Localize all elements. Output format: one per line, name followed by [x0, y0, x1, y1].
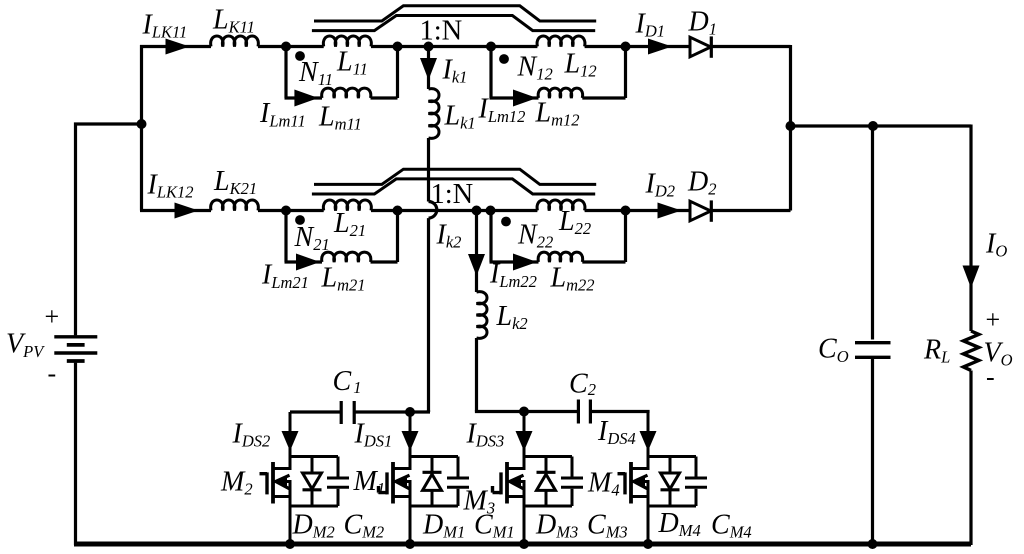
M2 cell top bar	[290, 455, 338, 470]
transistor M1 channel bar	[391, 462, 395, 504]
winding N22 left vertical	[489, 211, 492, 263]
transistor M1 gate lead	[379, 486, 388, 493]
transistor M4 gate lead	[618, 472, 626, 475]
wire C_O branch lower	[871, 359, 874, 545]
capacitor C_M3 plate bottom	[561, 486, 583, 489]
inductor L_m12	[538, 88, 583, 98]
wire row2 rail segment B	[258, 209, 324, 212]
capacitor C_M2 bottom lead	[337, 489, 340, 506]
wire row2 rail segment C	[371, 209, 537, 212]
transistor M3 body arrow	[510, 475, 524, 489]
wire row1 rail segment A	[140, 45, 211, 48]
arrow I_k1	[420, 58, 437, 80]
transistor M3 bottom stub	[507, 495, 524, 498]
arrow I_D2	[658, 203, 682, 219]
wire hop over row2 rail	[429, 202, 437, 219]
capacitor C_M2 plate bottom	[327, 486, 349, 489]
wire input left vertical	[140, 45, 143, 211]
inductor L_K11	[211, 36, 259, 47]
arrow I_DS3	[516, 431, 533, 451]
diode D_M1 triangle (up)	[423, 474, 442, 490]
wire M3 row horizontal right of C2	[590, 412, 648, 414]
capacitor C_M2 plate top	[327, 477, 349, 480]
diode D2 triangle	[690, 201, 711, 221]
transistor M2 gate lead	[260, 472, 268, 475]
node M4 source ground	[643, 539, 653, 549]
M4 cell bottom bar	[648, 505, 696, 508]
inductor L_k1 (vertical)	[429, 89, 440, 139]
node C_O top junction	[868, 121, 878, 131]
transformer T1 core bar lower	[312, 16, 595, 31]
wire Lm21 bottom right	[371, 260, 398, 263]
node C_O ground	[868, 539, 878, 549]
arrow I_DS4	[640, 431, 657, 451]
capacitor C_O plate top	[855, 341, 891, 344]
diode D_M2 triangle (down)	[303, 473, 322, 489]
capacitor C_M1 plate bottom	[447, 486, 469, 489]
transistor M2 bottom stub	[273, 495, 290, 498]
winding N21 right vertical	[396, 211, 399, 263]
transistor M3 top stub	[507, 467, 524, 470]
transistor M3 gate bar	[499, 472, 502, 494]
wire to source V_PV	[76, 124, 144, 335]
capacitor C_M4 plate top	[685, 477, 707, 480]
diode D_M4 cathode bar	[661, 488, 680, 491]
svg-text:1:N: 1:N	[431, 179, 474, 210]
inductor L_m22	[538, 252, 583, 262]
diode D_M3 cathode bar	[537, 471, 556, 474]
diode D_M2 anode lead	[311, 457, 314, 474]
node M1 drain junction	[405, 407, 415, 417]
wire T1 center tap down to Lk1	[427, 47, 430, 90]
wire row1 rail segment C	[371, 45, 537, 48]
capacitor C_M4 plate bottom	[685, 486, 707, 489]
diode D_M3 cathode lead	[545, 457, 548, 473]
arrow I_O	[963, 266, 980, 289]
polarity dot N12	[499, 54, 509, 64]
svg-text:-: -	[48, 359, 57, 388]
wire Lm12 bottom right	[582, 96, 625, 99]
wire M1 row horizontal right of C1	[354, 410, 430, 412]
capacitor C2 plate left	[577, 400, 580, 424]
transistor M4 body stub	[631, 480, 648, 483]
MOSFET M2 cell	[260, 412, 350, 545]
svg-text:+: +	[986, 305, 1001, 334]
transistor M3 drain lead	[523, 412, 526, 457]
battery V_PV plate short 2	[67, 359, 85, 363]
diode D_M2 cathode lead	[311, 490, 314, 506]
wire output right vertical	[789, 45, 792, 211]
arrow I_D1	[648, 39, 672, 55]
arrow I_Lm21	[296, 254, 320, 271]
wire Lm22 bottom right	[582, 260, 625, 263]
inductor L_k2 (vertical)	[477, 292, 488, 339]
battery V_PV plate short 1	[67, 343, 85, 347]
capacitor C_M4 bottom lead	[695, 489, 698, 506]
wire row2 rail segment E (D2 cathode to corner)	[711, 209, 791, 212]
winding N21 left vertical	[284, 211, 287, 263]
M3 cell bottom bar	[524, 505, 572, 508]
MOSFET M3 cell	[493, 412, 584, 546]
arrow I_LK12	[175, 203, 199, 219]
node row1 center tap	[424, 42, 434, 52]
transistor M4 body arrow	[634, 475, 648, 489]
transistor M3 gate lead	[493, 486, 502, 493]
wire Lk1 to hop	[427, 138, 430, 202]
transistor M2 body stub	[273, 480, 290, 483]
arrow I_Lm11	[294, 90, 318, 107]
diode D_M2 cathode bar	[303, 488, 322, 491]
transistor M3 channel bar	[505, 462, 509, 504]
capacitor C_M3 bottom lead	[571, 489, 574, 506]
wire T2 center tap down to Lk2	[475, 211, 478, 293]
transistor M1 body stub	[393, 480, 410, 483]
resistor R_L zigzag	[963, 331, 978, 370]
capacitor C_M1 bottom lead	[457, 489, 460, 506]
diode D2 cathode bar	[710, 200, 713, 221]
wire row1 rail segment D	[585, 45, 690, 48]
diode D_M4 anode lead	[669, 457, 672, 474]
M1 cell top bar	[410, 455, 458, 470]
wire R_L branch upper	[969, 125, 972, 332]
diode D_M1 cathode bar	[423, 471, 442, 474]
transistor M4 channel bar	[629, 462, 633, 504]
node row2 center tap	[472, 206, 482, 216]
diode D_M4 triangle (down)	[661, 473, 680, 489]
transformer T1 core bar upper	[314, 6, 596, 21]
wire R_L branch lower	[969, 371, 972, 546]
inductor L_11	[323, 36, 371, 47]
inductor L_21	[323, 200, 371, 211]
node M2 source ground	[285, 539, 295, 549]
inductor L_12	[537, 36, 585, 47]
diode D1 triangle	[690, 37, 711, 57]
transistor M2 gate bar	[265, 472, 268, 494]
winding N11 right vertical	[396, 47, 399, 99]
diode D_M3 triangle (up)	[537, 474, 556, 490]
diode D_M1 anode lead	[431, 490, 434, 506]
transistor M2 body arrow	[276, 475, 290, 489]
capacitor C_M3 plate top	[561, 477, 583, 480]
transistor M3 source lead	[523, 480, 526, 545]
svg-text:1:N: 1:N	[420, 16, 463, 47]
wire V_PV negative to ground rail	[74, 363, 77, 545]
node input junction	[137, 119, 147, 129]
transistor M2 drain lead	[289, 412, 292, 457]
MOSFET M4 cell	[618, 412, 708, 546]
arrow I_DS1	[402, 431, 419, 451]
capacitor C1 plate left	[340, 401, 343, 424]
capacitor C_M4 top lead	[695, 457, 698, 477]
transistor M4 bottom stub	[631, 495, 648, 498]
transistor M3 body stub	[507, 480, 524, 483]
transistor M4 source lead	[647, 480, 650, 545]
M3 cell top bar	[524, 455, 572, 470]
svg-text:-: -	[986, 363, 995, 392]
capacitor C2 plate right	[589, 400, 592, 424]
MOSFET M1 cell	[379, 412, 470, 545]
transistor M1 drain lead	[409, 412, 412, 457]
node row2 N22 left	[486, 206, 496, 216]
node M3 source ground	[519, 539, 529, 549]
transistor M1 body arrow	[396, 475, 410, 489]
M4 cell top bar	[648, 455, 696, 470]
wire Lk2 down to M3 row	[475, 338, 478, 412]
wire Lm21 bottom left	[285, 260, 323, 263]
arrow I_Lm22	[513, 254, 537, 271]
winding N11 left vertical	[284, 47, 287, 99]
wire output node rail	[789, 124, 971, 127]
node M3 drain junction	[519, 407, 529, 417]
battery V_PV plate long top	[54, 335, 97, 338]
node output junction	[786, 121, 796, 131]
M1 cell bottom bar	[410, 505, 458, 508]
M2 cell bottom bar	[290, 505, 338, 508]
inductor L_m11	[322, 88, 371, 98]
winding N22 right vertical	[624, 211, 627, 263]
wire M3 row horizontal left of C2	[477, 410, 579, 412]
node row2 N21 left	[281, 206, 291, 216]
arrow I_DS2	[282, 431, 299, 451]
capacitor C_M1 plate top	[447, 477, 469, 480]
transformer T2 core bar upper	[314, 169, 596, 184]
transistor M2 channel bar	[271, 462, 275, 504]
winding N12 right vertical	[624, 47, 627, 99]
arrow I_LK11	[166, 39, 190, 55]
transistor M1 bottom stub	[393, 495, 410, 498]
capacitor C1 plate right	[353, 401, 356, 424]
wire row1 rail segment E (D1 cathode to corner)	[711, 45, 791, 48]
inductor L_22	[537, 200, 585, 211]
wire C_O branch upper	[871, 126, 874, 340]
wire M1 row horizontal left of C1	[290, 410, 341, 413]
transistor M2 top stub	[273, 467, 290, 470]
ground rail bottom	[74, 542, 971, 547]
node row2 N21 right	[393, 206, 403, 216]
diode D_M3 anode lead	[545, 490, 548, 506]
diode D_M1 cathode lead	[431, 457, 434, 473]
capacitor C_O plate bottom	[855, 356, 891, 359]
capacitor C_M2 top lead	[337, 457, 340, 477]
winding N12 left vertical	[489, 47, 492, 99]
svg-text:+: +	[45, 302, 60, 331]
transformer T2 core bar lower	[312, 179, 595, 194]
wire hop down to M1 row	[427, 218, 430, 412]
diode D_M4 cathode lead	[669, 490, 672, 506]
transistor M1 top stub	[393, 467, 410, 470]
wire Lm11 bottom right	[371, 96, 398, 99]
capacitor C_M1 top lead	[457, 457, 460, 477]
wire Lm22 bottom left	[490, 260, 539, 263]
transistor M4 top stub	[631, 467, 648, 470]
polarity dot N11	[295, 51, 305, 61]
node row2 N22 right	[621, 206, 631, 216]
transistor M1 source lead	[409, 480, 412, 545]
node row1 N12 left	[486, 42, 496, 52]
transistor M4 drain lead	[647, 412, 650, 457]
inductor L_K21	[211, 200, 259, 211]
wire row2 rail segment A	[140, 209, 211, 212]
arrow I_k2	[468, 254, 485, 276]
node M1 source ground	[405, 539, 415, 549]
transistor M2 source lead	[289, 480, 292, 545]
wire row1 rail segment B	[258, 45, 324, 48]
wire Lm12 bottom left	[490, 96, 539, 99]
arrow I_Lm12	[513, 90, 537, 107]
wire Lm11 bottom left	[285, 96, 323, 99]
inductor L_m21	[322, 252, 371, 262]
battery V_PV plate long 2	[54, 351, 97, 354]
polarity dot N21	[295, 215, 305, 225]
node row1 N11 right	[393, 42, 403, 52]
wire row2 rail segment D	[585, 209, 690, 212]
transistor M4 gate bar	[623, 472, 626, 494]
diode D1 cathode bar	[710, 36, 713, 57]
node row1 N11 left	[281, 42, 291, 52]
transistor M1 gate bar	[385, 472, 388, 494]
capacitor C_M3 top lead	[571, 457, 574, 477]
polarity dot N22	[501, 217, 511, 227]
node row1 N12 right	[621, 42, 631, 52]
